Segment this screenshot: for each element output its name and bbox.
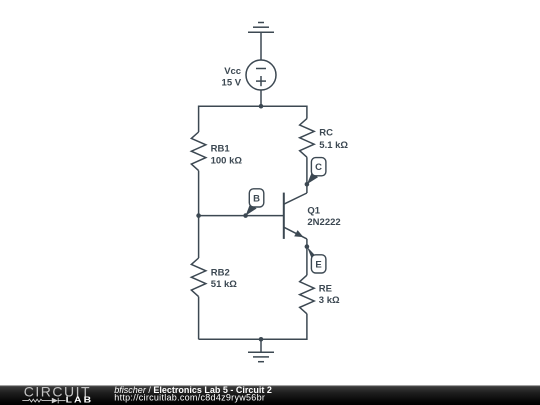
wire base (199, 215, 284, 217)
wire top horizontal (199, 106, 307, 132)
transistor Q1 emitter arrow (294, 230, 303, 237)
wire emitter to RE (306, 239, 308, 275)
transistor Q1 collector line (284, 193, 307, 204)
transistor Q1 base bar (283, 193, 285, 239)
node flag E (311, 255, 326, 273)
ground (bottom) (248, 339, 274, 361)
junction node base-left (196, 213, 201, 218)
resistor RB1 (191, 132, 206, 171)
svg-text:2N2222: 2N2222 (307, 217, 340, 228)
wire left rail middle (198, 171, 200, 258)
node dot C (305, 182, 310, 187)
svg-text:RC: RC (319, 128, 333, 139)
node flag C (311, 158, 326, 176)
wire RC to collector (306, 157, 308, 193)
footer text (114, 385, 272, 402)
svg-text:5.1 kΩ: 5.1 kΩ (319, 140, 348, 151)
node flag B (249, 189, 263, 207)
svg-text:51 kΩ: 51 kΩ (211, 279, 237, 290)
junction node bottom (259, 337, 264, 342)
svg-text:B: B (253, 193, 260, 204)
svg-text:Vcc: Vcc (224, 66, 241, 77)
svg-text:LAB: LAB (66, 396, 94, 405)
svg-text:http://circuitlab.com/c8d4z9ry: http://circuitlab.com/c8d4z9ryw56br (114, 392, 265, 402)
transistor Q1 emitter line (284, 227, 307, 239)
node dot E (305, 244, 310, 249)
svg-text:Q1: Q1 (307, 205, 320, 216)
svg-text:C: C (315, 162, 322, 173)
flag pointer E (307, 247, 319, 260)
svg-text:E: E (315, 259, 321, 270)
svg-text:100 kΩ: 100 kΩ (211, 155, 243, 166)
svg-text:RB1: RB1 (211, 144, 231, 155)
CircuitLab logo (22, 384, 93, 405)
wire left rail bottom (198, 297, 200, 340)
ground (top, inverted) (248, 23, 274, 61)
resistor RC (300, 119, 315, 158)
svg-text:15 V: 15 V (222, 77, 242, 88)
resistor RB2 (191, 258, 206, 297)
svg-text:3 kΩ: 3 kΩ (319, 295, 340, 306)
wire source to top node (260, 90, 262, 106)
wire bottom horizontal (199, 314, 307, 340)
flag pointer C (307, 173, 318, 185)
svg-text:RE: RE (319, 283, 332, 294)
flag pointer B (246, 204, 257, 216)
junction node top (259, 104, 264, 109)
voltage source V1 Vcc (246, 60, 276, 90)
svg-text:RB2: RB2 (211, 267, 230, 278)
resistor RE (300, 275, 315, 314)
node dot B (243, 213, 248, 218)
